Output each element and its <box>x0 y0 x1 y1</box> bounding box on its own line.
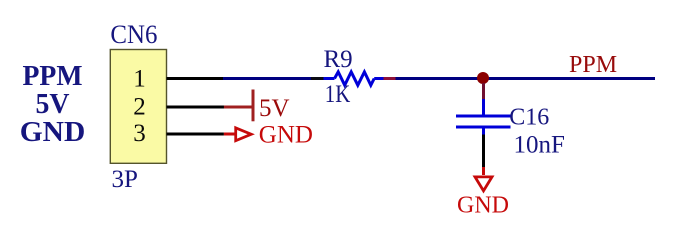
wire navy resistor to right edge <box>396 77 656 80</box>
svg-text:3P: 3P <box>112 166 138 193</box>
capacitor C16 bottom plate <box>456 126 511 129</box>
svg-text:1K: 1K <box>325 81 351 108</box>
capacitor C16 top plate <box>456 115 511 118</box>
wire black capacitor to ground <box>482 135 485 168</box>
wire pin1 stub (black) <box>167 77 224 80</box>
svg-text:R9: R9 <box>324 46 353 73</box>
wire pin2 stub (black) <box>167 106 226 109</box>
svg-text:GND: GND <box>259 122 313 149</box>
svg-text:1: 1 <box>133 65 146 92</box>
resistor R9 left lead <box>324 77 335 80</box>
wire pin3 gnd red segment <box>224 133 236 136</box>
wire blue stub to capacitor <box>482 99 485 115</box>
wire 5V red segment <box>224 106 252 109</box>
svg-text:GND: GND <box>457 193 509 219</box>
wire blue stub below capacitor <box>482 129 485 135</box>
ground symbol (below C16, down-pointing open triangle) <box>473 176 495 194</box>
connector CN6 body <box>110 50 166 164</box>
resistor R9 right lead <box>374 77 383 80</box>
wire pin3 stub (black) <box>167 133 224 136</box>
wire maroon segment right of resistor <box>384 77 396 80</box>
svg-text:3: 3 <box>133 120 146 147</box>
wire navy pin1 to resistor <box>223 77 311 80</box>
svg-text:PPM: PPM <box>569 52 617 78</box>
junction dot node <box>477 72 489 84</box>
svg-text:C16: C16 <box>509 105 549 131</box>
ground symbol (pin3, right-pointing open triangle) <box>234 126 255 143</box>
svg-text:10nF: 10nF <box>514 132 565 159</box>
svg-text:CN6: CN6 <box>110 20 157 49</box>
wire black segment before resistor <box>311 77 324 80</box>
power symbol 5V bar <box>252 90 255 122</box>
svg-text:2: 2 <box>133 94 146 121</box>
wire maroon stub below junction <box>482 83 485 99</box>
wire red stub to ground triangle <box>482 167 485 175</box>
svg-text:5V: 5V <box>259 95 290 122</box>
resistor R9 zigzag <box>335 72 375 85</box>
svg-text:GND: GND <box>20 116 86 148</box>
